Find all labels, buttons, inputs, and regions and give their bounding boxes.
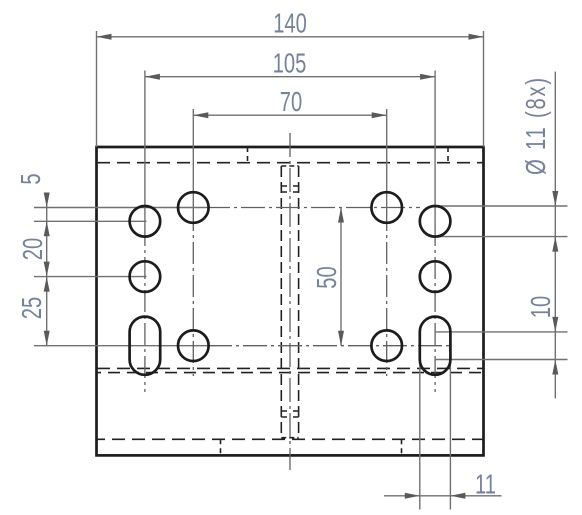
dim 11 line	[384, 495, 502, 497]
hole A1 outer-left top	[130, 206, 161, 237]
dim 5 arrow upper	[44, 193, 50, 208]
dim 11 arrow left	[405, 493, 420, 499]
hidden channel top edge	[281, 165, 298, 167]
column center line inner left	[192, 109, 194, 209]
dia arrow upper	[552, 191, 558, 206]
dim 70 arrow left	[193, 112, 208, 118]
hidden channel right edge	[298, 166, 300, 438]
dia arrow lower	[552, 237, 558, 252]
hidden tick top left	[247, 147, 249, 163]
svg-text:70: 70	[280, 87, 302, 118]
dim 50 arrow upper	[338, 208, 344, 223]
dim 140 arrow left	[97, 34, 112, 40]
svg-text:5: 5	[16, 173, 47, 184]
svg-text:140: 140	[273, 8, 307, 39]
center line row 2	[34, 220, 147, 222]
hole D2 outer-right mid	[420, 261, 451, 292]
vertical center line	[289, 133, 291, 470]
plate outline	[97, 147, 484, 455]
dim 70 line	[193, 114, 386, 116]
hidden channel tick row 1	[281, 185, 298, 187]
hidden channel tick row 3	[281, 410, 298, 412]
dim 105 arrow left	[145, 74, 160, 80]
svg-text:50: 50	[312, 266, 343, 288]
hidden channel tick row 2	[281, 191, 298, 193]
dim 25 arrow upper	[44, 277, 50, 292]
hole A2 outer-left mid	[130, 261, 161, 292]
slot A3 outer-left	[130, 317, 161, 375]
column center line inner right	[386, 109, 388, 209]
hidden channel bottom edge	[281, 437, 298, 439]
center line row 1	[34, 207, 206, 209]
hidden tick bottom right	[401, 439, 403, 455]
dim 140 arrow right	[469, 34, 484, 40]
hole B2 inner-left bottom	[178, 330, 209, 361]
dim 11 extension right	[449, 340, 451, 510]
hidden edge line mid lower	[97, 372, 483, 374]
dim 11 extension left	[419, 340, 421, 510]
hidden tick top right	[447, 147, 449, 163]
svg-text:105: 105	[273, 48, 307, 79]
dim 50 line	[340, 208, 342, 346]
center line row 4	[34, 345, 208, 347]
dim 50 arrow lower	[338, 331, 344, 346]
hidden channel tick row 4	[281, 416, 298, 418]
dim 11 arrow right	[450, 493, 465, 499]
svg-text:20: 20	[18, 238, 49, 260]
dim 20 arrow lower	[44, 262, 50, 277]
column center line outer left	[144, 71, 146, 225]
dia leader top tangent	[435, 205, 567, 207]
dim 70 arrow right	[372, 112, 387, 118]
dim 140 extension left	[96, 31, 98, 147]
dim 105 arrow right	[420, 74, 435, 80]
svg-text:10: 10	[526, 296, 557, 318]
hole C1 inner-right top	[371, 192, 402, 223]
dim left stack line	[46, 194, 48, 346]
hole D1 outer-right top	[420, 206, 451, 237]
hole B1 inner-left top	[178, 192, 209, 223]
hidden channel left edge	[280, 166, 282, 438]
hidden edge line top	[97, 162, 483, 164]
dim 10 arrow upper	[552, 317, 558, 332]
dim 10 arrow lower	[552, 360, 558, 375]
column center line outer right	[434, 71, 436, 225]
center line row 3	[34, 276, 147, 278]
hidden edge line mid upper	[97, 367, 483, 369]
dim 10 leader lower	[435, 359, 567, 361]
hidden edge line bottom	[97, 438, 483, 440]
svg-text:11: 11	[475, 469, 496, 500]
dim 10 leader upper	[435, 331, 567, 333]
right dim line	[554, 72, 556, 399]
slot D3 outer-right	[420, 317, 451, 375]
dia leader bottom tangent	[435, 236, 567, 238]
dim 140 line	[97, 36, 484, 38]
hole C2 inner-right bottom	[371, 330, 402, 361]
dim 5 arrow lower / dim 20 arrow upper	[44, 221, 50, 236]
hidden tick bottom left	[220, 439, 222, 455]
svg-text:Ø 11 (8x): Ø 11 (8x)	[521, 76, 552, 175]
dim 140 extension right	[483, 31, 485, 147]
dim 25 arrow lower	[44, 331, 50, 346]
dim 105 line	[145, 76, 435, 78]
svg-text:25: 25	[17, 297, 48, 319]
